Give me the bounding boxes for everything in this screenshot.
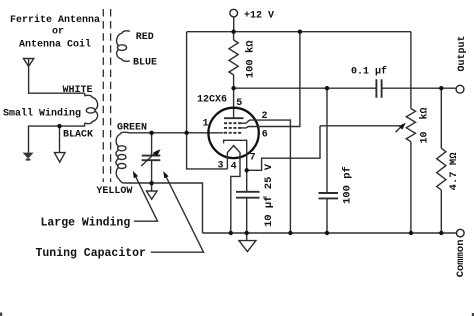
svg-text:4.7 MΩ: 4.7 MΩ xyxy=(448,152,460,191)
svg-text:Common: Common xyxy=(455,239,467,277)
svg-text:4: 4 xyxy=(231,161,237,172)
svg-text:GREEN: GREEN xyxy=(117,122,147,133)
svg-text:3: 3 xyxy=(218,161,224,172)
svg-text:Small Winding: Small Winding xyxy=(3,108,81,120)
svg-text:Large Winding: Large Winding xyxy=(41,216,131,229)
svg-text:+12 V: +12 V xyxy=(244,10,274,21)
svg-text:or: or xyxy=(52,26,64,37)
svg-text:BLUE: BLUE xyxy=(133,58,157,69)
svg-text:1: 1 xyxy=(203,119,209,130)
svg-text:100 pf: 100 pf xyxy=(342,166,354,204)
svg-text:Ferrite Antenna: Ferrite Antenna xyxy=(10,14,100,26)
svg-text:Tuning Capacitor: Tuning Capacitor xyxy=(36,247,147,260)
svg-text:6: 6 xyxy=(262,130,268,141)
svg-text:BLACK: BLACK xyxy=(63,129,93,140)
svg-text:10 μf 25 V: 10 μf 25 V xyxy=(263,163,275,227)
svg-text:7: 7 xyxy=(250,152,256,163)
svg-text:Antenna Coil: Antenna Coil xyxy=(19,39,91,51)
svg-text:WHITE: WHITE xyxy=(63,85,93,96)
svg-text:12CX6: 12CX6 xyxy=(197,95,227,106)
svg-text:100 kΩ: 100 kΩ xyxy=(244,40,256,79)
svg-text:0.1 μf: 0.1 μf xyxy=(351,65,387,77)
svg-text:YELLOW: YELLOW xyxy=(96,186,132,197)
svg-text:RED: RED xyxy=(136,32,154,43)
svg-text:Output: Output xyxy=(457,35,468,71)
svg-text:10 kΩ: 10 kΩ xyxy=(419,107,431,143)
